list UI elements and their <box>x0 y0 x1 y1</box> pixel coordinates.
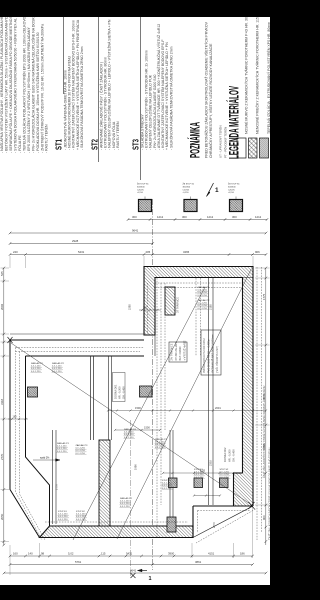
svg-text:906: 906 <box>262 515 266 520</box>
svg-text:spád 2%: spád 2% <box>40 457 50 460</box>
svg-text:ŽB STĹP S1: ŽB STĹP S1 <box>228 183 240 186</box>
svg-text:CHRÁNIČKY A PRESTUPY, VŠETKY L: CHRÁNIČKY A PRESTUPY, VŠETKY LEŽATÉ ROZV… <box>208 43 213 158</box>
svg-text:2050: 2050 <box>0 513 4 520</box>
svg-text:- EPS 200S ULOŽENÝ V 2 VRSTVÁ: - EPS 200S ULOŽENÝ V 2 VRSTVÁCH ( 80+50m… <box>26 27 31 153</box>
svg-text:2% TVÁRNICE: 2% TVÁRNICE <box>171 343 174 360</box>
svg-text:186: 186 <box>240 552 245 556</box>
svg-text:1212: 1212 <box>157 215 164 219</box>
svg-text:OH. -0,400: OH. -0,400 <box>232 449 236 462</box>
svg-text:OH. -0,400: OH. -0,400 <box>122 386 126 399</box>
svg-text:1500: 1500 <box>144 426 150 430</box>
svg-text:- FÓLIA PE: - FÓLIA PE <box>17 135 22 153</box>
svg-text:3465: 3465 <box>183 250 190 254</box>
svg-text:ZÁKLAD P1: ZÁKLAD P1 <box>155 438 168 441</box>
svg-text:NENOSNÉ PRIEČKY Z KERAMICKÝCH: NENOSNÉ PRIEČKY Z KERAMICKÝCH TVÁRNIC PO… <box>255 11 260 134</box>
svg-text:DOSKA D02: DOSKA D02 <box>223 447 227 462</box>
svg-text:2928: 2928 <box>72 239 79 243</box>
svg-text:- SYSTÉMOVÁ DOSKA PODLAHOVÉHO: - SYSTÉMOVÁ DOSKA PODLAHOVÉHO VYKUROVANI… <box>13 18 18 153</box>
svg-text:906: 906 <box>255 250 260 254</box>
svg-text:2302: 2302 <box>209 460 213 466</box>
svg-text:5,05: 5,05 <box>200 469 206 473</box>
svg-text:STĹP S1: STĹP S1 <box>162 479 171 482</box>
svg-text:1212: 1212 <box>255 215 262 219</box>
svg-text:9641: 9641 <box>130 569 137 573</box>
svg-text:C20/25: C20/25 <box>228 189 236 191</box>
svg-text:-0,150: -0,150 <box>183 192 190 194</box>
svg-text:TEPELNÁ IZOLÁCIA - EXTRUDOVANÝ: TEPELNÁ IZOLÁCIA - EXTRUDOVANÝ POLYSTYRÉ… <box>266 22 270 134</box>
svg-text:STĹP S2: STĹP S2 <box>76 510 85 513</box>
svg-text:300: 300 <box>143 307 148 310</box>
svg-text:STĹP S1: STĹP S1 <box>58 510 67 513</box>
svg-text:ST3: ST3 <box>132 139 141 150</box>
svg-text:140: 140 <box>28 552 33 556</box>
svg-text:1: 1 <box>215 187 219 194</box>
svg-text:C20/25: C20/25 <box>183 189 191 191</box>
svg-text:ST1: ST1 <box>55 139 64 150</box>
svg-text:205: 205 <box>146 250 151 254</box>
svg-text:1500: 1500 <box>135 406 141 410</box>
svg-text:UT - UPRAVENÝ TERÉN: UT - UPRAVENÝ TERÉN <box>218 125 223 158</box>
svg-text:- BETÓNOVÝ POTER VYSTUŽENÝ LI: - BETÓNOVÝ POTER VYSTUŽENÝ LIATY HR. 55m… <box>4 10 9 153</box>
svg-text:160: 160 <box>13 552 18 556</box>
svg-text:HR. -0,200: HR. -0,200 <box>227 449 231 462</box>
svg-text:ZÁKLAD P2: ZÁKLAD P2 <box>120 497 133 500</box>
svg-text:3861: 3861 <box>195 560 202 564</box>
svg-text:C20/25: C20/25 <box>137 189 145 191</box>
svg-text:240: 240 <box>13 250 18 254</box>
svg-text:- NÁŠĽAPNÁ VRSTVA PODLAHY - K: - NÁŠĽAPNÁ VRSTVA PODLAHY - KERAMICKÁ DL… <box>0 4 4 153</box>
svg-text:ZÁKLAD P1: ZÁKLAD P1 <box>31 362 44 365</box>
svg-text:5761: 5761 <box>75 560 82 564</box>
svg-text:ZÁKLAD P2: ZÁKLAD P2 <box>52 362 65 365</box>
svg-text:9641: 9641 <box>132 229 139 233</box>
svg-text:- SEPARAČNÁ FÓLIA PE + OKRAJO: - SEPARAČNÁ FÓLIA PE + OKRAJOVÁ DILATAČN… <box>8 13 13 153</box>
svg-text:ŽB STĹP S1: ŽB STĹP S1 <box>137 183 149 186</box>
svg-text:2285: 2285 <box>128 304 132 310</box>
svg-text:- PN+ 2x HYDROIZOLÁCIA GLASBI: - PN+ 2x HYDROIZOLÁCIA GLASBIT G200 S40 … <box>30 14 35 153</box>
svg-text:DT TVÁRNICE: DT TVÁRNICE <box>177 297 180 313</box>
svg-text:4151: 4151 <box>208 552 215 556</box>
svg-text:ZÁKLAD P4: ZÁKLAD P4 <box>124 428 137 431</box>
svg-text:525: 525 <box>0 271 4 276</box>
svg-text:- SILIKÓNOVÁ FASÁDNA TENKOVRS: - SILIKÓNOVÁ FASÁDNA TENKOVRSTVÁ OMIETKA… <box>168 46 173 150</box>
svg-text:ŽB STĹP S1: ŽB STĹP S1 <box>183 183 195 186</box>
svg-text:NOSNÉ MURIVO Z KERAMICKÝCH TVÁ: NOSNÉ MURIVO Z KERAMICKÝCH TVÁRNIC POROT… <box>244 9 249 134</box>
svg-text:300/300: 300/300 <box>183 186 191 188</box>
svg-text:5431: 5431 <box>78 250 85 254</box>
svg-text:STĹP S2: STĹP S2 <box>220 468 229 471</box>
svg-text:- ZHUTNENÝ ŠTRKOVÝ PODSYP FR.: - ZHUTNENÝ ŠTRKOVÝ PODSYP FR. 16-32 HR. … <box>39 24 44 153</box>
svg-text:2770: 2770 <box>55 484 59 490</box>
svg-text:- PODKLADOVÁ DOSKA HR. 150mm: - PODKLADOVÁ DOSKA HR. 150mm VYSTUŽENÁ K… <box>35 32 40 153</box>
svg-text:300/300: 300/300 <box>228 186 236 188</box>
svg-text:115: 115 <box>101 552 106 556</box>
svg-text:DOSKA D01: DOSKA D01 <box>114 384 118 399</box>
svg-text:ZÁKLAD P3: ZÁKLAD P3 <box>76 444 89 447</box>
svg-text:+ VÝSTUŽ 4xR12: + VÝSTUŽ 4xR12 <box>183 340 186 361</box>
svg-text:- RASTLÝ TERÉN: - RASTLÝ TERÉN <box>44 124 49 153</box>
svg-text:300/300: 300/300 <box>137 186 145 188</box>
svg-text:ZÁKLAD P2: ZÁKLAD P2 <box>198 299 211 302</box>
svg-text:HR. -0,200: HR. -0,200 <box>118 386 122 399</box>
svg-text:ST2: ST2 <box>91 139 100 150</box>
svg-text:1212: 1212 <box>207 215 214 219</box>
svg-text:ZÁKLAD P1: ZÁKLAD P1 <box>198 286 211 289</box>
svg-text:PRED BETONÁŽOU ZÁKLADOV SKONTR: PRED BETONÁŽOU ZÁKLADOV SKONTROLOVAŤ OSA… <box>204 21 209 158</box>
svg-text:160: 160 <box>13 416 18 419</box>
svg-text:VYTIAHNUŤ NAD DOSKU 500mm: VYTIAHNUŤ NAD DOSKU 500mm <box>212 334 215 373</box>
svg-text:5,02: 5,02 <box>68 552 74 556</box>
svg-text:ZÁKLAD P1: ZÁKLAD P1 <box>57 442 70 445</box>
svg-text:2082: 2082 <box>0 303 4 310</box>
svg-text:BET. C16/20: BET. C16/20 <box>179 346 182 361</box>
svg-text:LEGENDA MATERIÁLOV: LEGENDA MATERIÁLOV <box>226 86 242 159</box>
svg-text:3118: 3118 <box>0 399 4 405</box>
svg-text:2770: 2770 <box>0 453 4 460</box>
svg-text:3900: 3900 <box>168 552 175 556</box>
svg-text:98: 98 <box>41 552 45 556</box>
svg-text:300: 300 <box>232 215 237 219</box>
svg-text:2001: 2001 <box>215 406 221 410</box>
svg-text:ČASŤ ZÁKLADOVÝCH PÁSOV KTORÉ S: ČASŤ ZÁKLADOVÝCH PÁSOV KTORÉ SÚ VYHĹBENÉ… <box>268 448 270 540</box>
svg-text:- SILIKÓNOVÁ FASÁDNA TENKOVRS: - SILIKÓNOVÁ FASÁDNA TENKOVRSTVÁ OMIETKA… <box>79 46 84 150</box>
svg-text:- TEPELNÁ IZOLÁCIA PODLAHOVÝ: - TEPELNÁ IZOLÁCIA PODLAHOVÝ POLYSTYRÉN … <box>21 16 26 153</box>
svg-text:ČASŤ ZÁKLADOVÝCH PÁSOV KTORÉ S: ČASŤ ZÁKLADOVÝCH PÁSOV KTORÉ SÚ VYHĹBENÉ… <box>263 386 266 478</box>
svg-text:2185: 2185 <box>209 304 213 310</box>
svg-text:1: 1 <box>149 576 152 582</box>
svg-text:-0,150: -0,150 <box>137 192 144 194</box>
svg-text:( VIĎ. PÔDORYS 1.NP ): ( VIĎ. PÔDORYS 1.NP ) <box>216 346 219 373</box>
svg-text:DT 300 ZALIATE: DT 300 ZALIATE <box>175 341 178 360</box>
svg-text:300: 300 <box>182 215 187 219</box>
svg-text:PRÍVOD VZDUCHU DO KRBU: PRÍVOD VZDUCHU DO KRBU <box>203 338 206 373</box>
svg-text:1775: 1775 <box>262 293 266 300</box>
svg-text:- RASTLÝ TERÉN: - RASTLÝ TERÉN <box>115 121 120 150</box>
svg-text:-0,150: -0,150 <box>228 192 235 194</box>
svg-text:1980: 1980 <box>134 464 138 470</box>
svg-text:300: 300 <box>132 215 137 219</box>
svg-text:POZNÁMKA: POZNÁMKA <box>187 122 203 158</box>
svg-text:PVC DN 160 RŠ 61 = -0,420m: PVC DN 160 RŠ 61 = -0,420m <box>207 339 210 373</box>
svg-text:5431: 5431 <box>126 552 133 556</box>
svg-text:2570: 2570 <box>212 522 216 528</box>
